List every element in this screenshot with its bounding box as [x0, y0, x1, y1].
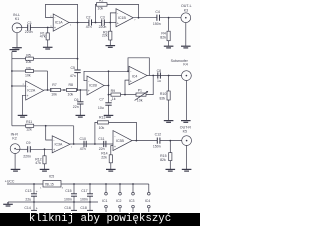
svg-text:220n: 220n — [99, 25, 107, 29]
wire IC3B output — [132, 140, 157, 142]
resistor R8 10k — [67, 83, 88, 97]
svg-text:47k: 47k — [35, 161, 41, 165]
connector K3 OUT-L — [181, 4, 192, 23]
svg-text:10k: 10k — [26, 60, 32, 64]
svg-text:IC3B: IC3B — [116, 139, 124, 143]
svg-text:-: - — [54, 16, 56, 20]
svg-text:1u: 1u — [157, 79, 161, 83]
svg-text:C13: C13 — [25, 189, 31, 193]
capacitor C13 22u electrolytic — [25, 184, 38, 202]
node D junction — [138, 17, 140, 19]
wire K2 to ground — [14, 154, 16, 170]
capacitor C8 1u — [157, 69, 162, 83]
svg-text:C10: C10 — [80, 137, 86, 141]
svg-text:C12: C12 — [155, 132, 161, 136]
riser column x=108.5 — [108, 71, 110, 102]
power pin IC2 — [116, 183, 122, 212]
capacitor C9 220n — [23, 141, 31, 159]
svg-text:+: + — [88, 89, 91, 93]
wire IC4 feedback — [128, 58, 149, 76]
wire fb to IC3A output riser — [73, 126, 75, 144]
svg-text:22u: 22u — [25, 197, 31, 201]
svg-text:IC4: IC4 — [132, 74, 138, 78]
svg-text:22k: 22k — [101, 155, 107, 159]
wire K4 to ground — [185, 81, 187, 121]
wire IC3A output — [70, 143, 113, 145]
svg-text:IC3A: IC3A — [55, 143, 63, 147]
svg-text:R2: R2 — [99, 0, 104, 3]
op-amp IC3A — [52, 136, 73, 153]
wire IC2A output — [44, 89, 53, 91]
wire IC1B output — [133, 17, 157, 19]
svg-text:K2: K2 — [12, 136, 16, 140]
svg-text:K4: K4 — [183, 63, 187, 67]
svg-text:220n: 220n — [23, 154, 31, 158]
resistor R15 82k — [160, 141, 172, 170]
node C junction — [109, 22, 111, 24]
wire IC4 plus down to tap — [125, 80, 129, 95]
svg-text:C16: C16 — [64, 206, 70, 210]
node P1 wiper tap — [124, 94, 126, 96]
ground under R15 — [166, 169, 176, 171]
resistor R3 22k — [102, 23, 112, 46]
svg-text:1: 1 — [40, 188, 42, 190]
svg-text:78L15: 78L15 — [45, 182, 54, 186]
wire C1 to opamp IC1A — [30, 27, 53, 29]
svg-text:R6: R6 — [26, 66, 31, 70]
resistor R11 12k on bus — [12, 120, 74, 132]
svg-text:+: + — [114, 145, 117, 149]
svg-text:+: + — [26, 94, 29, 98]
wire C2 to C3 — [92, 22, 102, 24]
wire C3 to IC1B — [104, 22, 116, 24]
svg-text:R13: R13 — [99, 116, 105, 120]
ground under C6 — [76, 115, 86, 117]
capacitor C10 47n — [80, 137, 87, 151]
node fb IC3B tap — [94, 143, 96, 145]
ground under R3 — [106, 46, 116, 48]
svg-text:10k: 10k — [137, 98, 143, 102]
svg-text:IC2B: IC2B — [89, 84, 97, 88]
capacitor C16 below rail — [64, 202, 77, 210]
wire K5 to ground — [186, 145, 188, 169]
power pin IC3 — [129, 183, 135, 212]
wire IC1A output — [69, 22, 89, 24]
svg-text:220n: 220n — [25, 30, 33, 34]
resistor R13 10k feedback — [95, 116, 136, 144]
svg-text:K1: K1 — [15, 17, 19, 21]
svg-text:2: 2 — [23, 84, 25, 86]
capacitor C1 220n — [25, 21, 33, 34]
svg-text:+UCC: +UCC — [5, 179, 15, 183]
capacitor C17 100n — [80, 183, 93, 202]
node junction C9/R12 — [44, 148, 46, 150]
node C6 tap — [79, 89, 81, 91]
svg-text:-: - — [117, 11, 119, 15]
svg-text:K5: K5 — [183, 130, 187, 134]
wire IC2B output to riser — [104, 85, 109, 87]
svg-text:C6: C6 — [74, 98, 79, 102]
svg-text:IC1: IC1 — [102, 199, 108, 203]
node IC4 fb tap — [127, 70, 129, 72]
wire node C up to IC1B minus — [110, 13, 116, 23]
capacitor C12 150n — [153, 132, 161, 148]
svg-text:150n: 150n — [153, 144, 161, 148]
wire IC2A minus stub from bus — [12, 85, 26, 87]
wire left bus — [11, 52, 13, 126]
svg-text:C8: C8 — [157, 69, 162, 73]
svg-text:C15: C15 — [65, 189, 71, 193]
svg-text:82k: 82k — [160, 96, 166, 100]
resistor R2 10k feedback — [96, 0, 139, 22]
svg-text:IC1A: IC1A — [55, 21, 63, 25]
power pin IC1 — [102, 183, 108, 212]
svg-text:1: 1 — [70, 24, 72, 26]
resistor R9 1k — [109, 89, 137, 101]
svg-text:22n: 22n — [99, 147, 105, 151]
svg-text:100n: 100n — [64, 197, 72, 201]
regulator IC5 78L15 — [40, 174, 64, 189]
resistor R10 82k — [160, 76, 171, 121]
svg-text:7: 7 — [134, 20, 136, 22]
svg-text:R9: R9 — [111, 89, 116, 93]
svg-text:IC4: IC4 — [145, 199, 151, 203]
op-amp IC4 — [129, 66, 147, 84]
svg-text:IC1B: IC1B — [118, 16, 126, 20]
node B junction — [95, 22, 97, 24]
ground under K5 — [182, 169, 192, 171]
svg-text:C14: C14 — [24, 206, 30, 210]
svg-text:10k: 10k — [51, 93, 57, 97]
svg-text:22k: 22k — [102, 34, 108, 38]
wire riser to IC4 minus — [109, 70, 130, 72]
svg-text:IC5: IC5 — [49, 174, 55, 178]
svg-text:10k: 10k — [25, 73, 31, 77]
svg-text:K3: K3 — [184, 9, 188, 13]
wire IC4 output to K4 — [147, 75, 181, 77]
resistor R5 10k — [12, 54, 78, 64]
power pin IC4 — [145, 184, 151, 212]
op-amp IC1A — [50, 14, 72, 31]
capacitor C2 47n — [86, 15, 92, 29]
wire IC2B minus feedback — [84, 71, 109, 80]
capacitor C14 below rail — [24, 202, 37, 210]
node mid junction — [63, 89, 65, 91]
svg-text:100n: 100n — [80, 197, 88, 201]
node E junction — [168, 17, 170, 19]
wire R11 to IC3A minus — [46, 126, 53, 140]
node junction C1/R1 — [47, 27, 49, 29]
svg-text:R7: R7 — [52, 83, 57, 87]
svg-text:47n: 47n — [80, 147, 86, 151]
wire IC3B plus down to R14 — [111, 146, 113, 155]
svg-text:IC2A: IC2A — [27, 88, 35, 92]
svg-text:C3: C3 — [100, 15, 105, 19]
node A junction — [77, 22, 79, 24]
svg-text:R5: R5 — [26, 54, 31, 58]
svg-text:82k: 82k — [160, 36, 166, 40]
power ground rail — [8, 201, 98, 203]
ground at rail left — [3, 202, 13, 206]
svg-text:10k: 10k — [68, 93, 74, 97]
ground under K1 — [12, 48, 22, 50]
power top rail — [7, 183, 149, 185]
svg-text:-: - — [114, 134, 116, 138]
node F junction — [77, 89, 79, 91]
op-amp IC1B — [116, 9, 136, 27]
svg-text:IC2: IC2 — [116, 199, 122, 203]
capacitor C7 10u electrolytic — [98, 98, 112, 115]
ground under R12 — [40, 169, 50, 171]
wire IC2A plus to ground — [23, 95, 26, 115]
capacitor C6 22n shunt — [73, 90, 84, 115]
ground at bus top — [10, 50, 20, 52]
ground under R4 — [164, 46, 174, 48]
wire C4 to K3 — [160, 17, 182, 19]
node R6 left on bus — [11, 70, 13, 72]
svg-text:82k: 82k — [160, 158, 166, 162]
wire K3 to ground — [185, 23, 187, 46]
op-amp IC2A — [23, 81, 44, 100]
wire R6 feedback down — [47, 71, 49, 90]
ground under K2 — [11, 169, 21, 171]
svg-text:+: + — [36, 190, 38, 194]
connector K5 OUT-R — [180, 125, 192, 145]
ground under IC2A plus — [18, 115, 28, 117]
svg-text:C1: C1 — [27, 21, 32, 25]
resistor R1 47k — [40, 28, 50, 48]
svg-text:IC3: IC3 — [129, 199, 135, 203]
svg-text:22n: 22n — [73, 105, 79, 109]
caption bar — [0, 213, 200, 226]
connector K4 Subwoofer — [171, 59, 192, 81]
wire C12 to K5 — [160, 140, 182, 142]
ground under R10 — [164, 121, 174, 123]
resistor R14 22k — [101, 152, 112, 170]
capacitor C4 150n — [153, 10, 161, 26]
svg-text:12k: 12k — [26, 128, 32, 132]
ground under R1 — [43, 47, 53, 49]
wire IC1A minus stub and feedback — [46, 4, 78, 22]
svg-text:R11: R11 — [26, 120, 32, 124]
connector K2 IN-R — [10, 133, 27, 154]
svg-text:C2: C2 — [86, 15, 91, 19]
capacitor C15 100n — [64, 183, 77, 202]
wire node A down feed — [77, 23, 79, 71]
svg-text:C17: C17 — [81, 189, 87, 193]
svg-text:47n: 47n — [86, 25, 92, 29]
potentiometer P1 10k — [135, 89, 149, 103]
svg-text:C4: C4 — [155, 10, 160, 14]
svg-text:47n: 47n — [70, 74, 76, 78]
node R10 tap — [168, 75, 170, 77]
svg-text:+: + — [36, 206, 38, 210]
op-amp IC3B — [113, 131, 132, 151]
svg-text:1: 1 — [71, 147, 73, 149]
svg-text:OUT-L: OUT-L — [181, 4, 192, 8]
capacitor C11 220n — [98, 137, 106, 151]
svg-text:C18: C18 — [80, 206, 86, 210]
svg-text:10k: 10k — [99, 126, 105, 130]
ground under C7 — [104, 115, 114, 117]
svg-text:150n: 150n — [153, 22, 161, 26]
connector K1 IN-L — [12, 13, 28, 33]
wire C9 to IC3A — [30, 148, 52, 150]
node R5 branch — [77, 58, 79, 60]
wire P1 to IC4 output — [146, 76, 153, 95]
svg-text:C7: C7 — [99, 98, 104, 102]
svg-text:P1: P1 — [138, 89, 142, 93]
svg-text:47k: 47k — [40, 34, 46, 38]
svg-text:C11: C11 — [98, 137, 104, 141]
ground under K3 — [181, 46, 191, 48]
resistor R6 10k — [12, 66, 48, 77]
resistor R4 82k — [160, 18, 170, 46]
op-amp IC2B — [87, 76, 104, 95]
node C13 tap — [33, 183, 35, 185]
ground under K4 — [181, 121, 191, 123]
wire K1 to ground — [16, 33, 18, 48]
svg-text:10u: 10u — [98, 106, 104, 110]
svg-text:C9: C9 — [26, 141, 31, 145]
ground under R14 — [106, 169, 116, 171]
svg-text:3: 3 — [62, 188, 64, 190]
resistor R7 10k — [51, 83, 67, 97]
capacitor C5 47n in vertical feed — [70, 66, 81, 90]
capacitor C18 below rail — [80, 202, 93, 210]
svg-text:C5: C5 — [71, 66, 76, 70]
svg-text:R8: R8 — [69, 83, 74, 87]
node R15 tap — [169, 140, 171, 142]
capacitor C3 220n — [99, 15, 107, 29]
svg-text:1k: 1k — [112, 97, 116, 101]
svg-text:-: - — [130, 69, 132, 73]
resistor R12 47k — [35, 149, 46, 169]
svg-text:10k: 10k — [98, 7, 104, 11]
